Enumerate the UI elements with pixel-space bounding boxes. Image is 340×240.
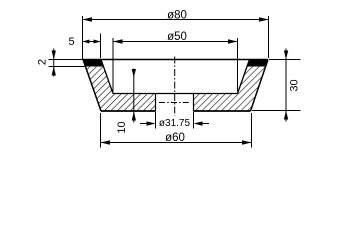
dim 2 extension line bottom bbox=[49, 66, 86, 68]
dim 30 arrow bottom bbox=[284, 111, 288, 120]
right inner sloped edge bbox=[238, 60, 250, 94]
dim ø80 arrow left bbox=[83, 17, 93, 21]
left inner sloped edge bbox=[101, 60, 113, 94]
bore left edge bbox=[155, 94, 157, 112]
dim 30 extension line bottom bbox=[252, 110, 301, 112]
dim 2 arrow top bbox=[52, 51, 56, 60]
dim ø31.75 leader left with arrow bbox=[140, 123, 148, 125]
dim 5 line bbox=[83, 41, 101, 43]
dim 5 arrow right bbox=[94, 40, 101, 44]
svg-text:2: 2 bbox=[37, 59, 49, 65]
svg-text:ø31.75: ø31.75 bbox=[159, 118, 191, 129]
dim ø50 arrow left bbox=[113, 39, 123, 43]
dim ø60 line bbox=[101, 142, 252, 144]
flange bottom line right bbox=[194, 110, 251, 112]
dim ø50 line bbox=[113, 41, 238, 43]
dim ø60 arrow right bbox=[242, 140, 252, 144]
dim ø50 extension line left bbox=[112, 38, 114, 92]
abrasive rim right (filled black) bbox=[247, 60, 268, 67]
dim ø60 extension line left bbox=[100, 113, 102, 148]
dim ø60 arrow left bbox=[101, 140, 111, 144]
svg-text:ø80: ø80 bbox=[167, 10, 187, 22]
svg-text:ø60: ø60 bbox=[165, 132, 185, 144]
flange top surface line bbox=[113, 93, 238, 95]
dim 5 extension line right bbox=[100, 34, 102, 59]
dim 2 arrow bottom bbox=[52, 67, 56, 76]
dim ø31.75 extension line left bbox=[155, 112, 157, 129]
dim ø31.75 leader right with arrow bbox=[202, 123, 209, 125]
dim 10 arrow lower (points up) bbox=[132, 112, 136, 121]
dim 30 extension line top bbox=[269, 59, 301, 61]
bore right edge bbox=[193, 94, 195, 112]
dim 30 arrow top bbox=[284, 51, 288, 60]
dim 2 extension line top bbox=[49, 59, 84, 61]
dim 10 arrow upper (points down) bbox=[132, 69, 136, 78]
dim ø80 extension line right bbox=[268, 16, 270, 58]
right outer sloped edge bbox=[251, 60, 269, 112]
left outer sloped edge bbox=[83, 60, 101, 112]
dim 5 arrow left bbox=[83, 40, 90, 44]
svg-text:ø50: ø50 bbox=[167, 31, 187, 43]
svg-text:10: 10 bbox=[116, 121, 128, 133]
hatched left wall and flange section bbox=[86, 67, 156, 112]
dim ø50 arrow right bbox=[228, 39, 238, 43]
svg-text:5: 5 bbox=[68, 36, 74, 48]
dim ø80 arrow right bbox=[259, 17, 269, 21]
dim ø31.75 extension line right bbox=[193, 112, 195, 129]
dim ø50 extension line right bbox=[237, 38, 239, 92]
dim ø60 extension line right bbox=[251, 113, 253, 148]
vertical centerline bbox=[174, 57, 176, 117]
flange bottom line left bbox=[101, 110, 156, 112]
abrasive rim left (filled black) bbox=[83, 60, 104, 67]
bore horizontal centerline bbox=[159, 102, 191, 104]
svg-text:30: 30 bbox=[289, 79, 301, 91]
dim 30 line bbox=[285, 49, 287, 122]
hatched right wall and flange section bbox=[194, 67, 266, 112]
dim ø80 extension line left bbox=[82, 16, 84, 59]
dim ø80 line bbox=[83, 19, 269, 21]
dim 10 line bbox=[133, 69, 135, 123]
dim 2 line bbox=[53, 49, 55, 77]
top surface line bbox=[83, 59, 268, 61]
